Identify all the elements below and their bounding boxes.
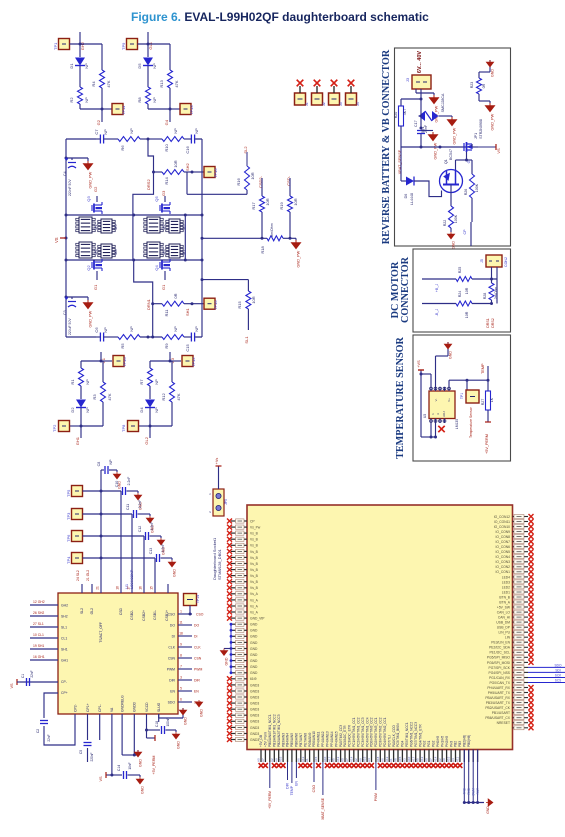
svg-text:D2: D2: [70, 407, 75, 413]
svg-text:CSN: CSN: [168, 656, 176, 660]
wire: [81, 360, 101, 362]
wire Q1 collector to gate: [455, 160, 457, 170]
svg-text:PC4/H5V/TIM1_CC4: PC4/H5V/TIM1_CC4: [365, 717, 369, 747]
svg-text:PG6/SPI_MOSI: PG6/SPI_MOSI: [487, 661, 510, 665]
pin SL1 left wire: [30, 626, 58, 628]
wire inter-row vertical A: [132, 215, 134, 260]
svg-text:PB2/AIN2/TIM1_NCC3: PB2/AIN2/TIM1_NCC3: [277, 714, 281, 747]
svg-text:Vs_B: Vs_B: [250, 538, 259, 542]
node +VS temp: [420, 370, 422, 437]
svg-text:61t9: 61t9: [250, 677, 257, 681]
svg-text:PG6/TIM1_NCC2: PG6/TIM1_NCC2: [410, 722, 414, 747]
svg-text:A15: A15: [398, 756, 402, 762]
svg-text:10R: 10R: [465, 311, 469, 318]
svg-text:GND3: GND3: [250, 738, 259, 742]
testpoint TP5: [72, 486, 83, 497]
svg-text:NP: NP: [152, 63, 157, 69]
wire CSB2+ vertical: [131, 514, 133, 593]
testpoint TP16: [192, 171, 204, 173]
svg-text:R11: R11: [164, 309, 169, 317]
svg-text:CSB2+: CSB2+: [142, 610, 146, 621]
svg-text:PH4/UART_RX: PH4/UART_RX: [487, 686, 510, 690]
capacitor C6 NP: [100, 333, 103, 342]
pin EN right stub: [178, 690, 192, 692]
svg-text:PG2: PG2: [432, 740, 436, 747]
node GL2: [149, 426, 151, 438]
svg-text:C5: C5: [79, 750, 83, 754]
svg-text:GND: GND: [250, 653, 258, 657]
svg-text:SH2: SH2: [185, 162, 190, 171]
svg-text:RST: RST: [476, 788, 480, 794]
svg-text:R19: R19: [279, 202, 284, 210]
svg-text:BTN_B: BTN_B: [499, 595, 510, 599]
jumper J1: [295, 93, 306, 105]
svg-text:+5V_PERM: +5V_PERM: [152, 756, 156, 775]
resistor R14 10R: [154, 171, 163, 173]
wire U3 left pin to +VS: [430, 374, 432, 387]
svg-text:26 SH2: 26 SH2: [33, 611, 44, 615]
svg-text:R3: R3: [92, 394, 97, 400]
svg-text:IO_CON6: IO_CON6: [496, 545, 511, 549]
svg-text:TP11: TP11: [121, 105, 126, 115]
svg-text:USB_DP: USB_DP: [497, 626, 511, 630]
svg-text:A13: A13: [301, 756, 305, 762]
jumper J3: [329, 93, 340, 105]
svg-text:IO_CON9: IO_CON9: [496, 530, 511, 534]
svg-text:16 GH1: 16 GH1: [33, 655, 45, 659]
wire bottom rail: [66, 336, 96, 338]
svg-text:GND3: GND3: [250, 708, 259, 712]
pin CSN right stub: [178, 657, 192, 659]
svg-text:GND: GND: [250, 635, 258, 639]
svg-text:PF4/AIN15: PF4/AIN15: [334, 731, 338, 747]
svg-text:R15: R15: [237, 301, 242, 309]
svg-text:PG4/TIM1_ETR: PG4/TIM1_ETR: [418, 724, 422, 747]
capacitor C8 NP row: [101, 469, 104, 471]
svg-text:IO_CON11: IO_CON11: [494, 520, 510, 524]
svg-text:SDI: SDI: [555, 668, 560, 672]
ground GND swim: [486, 799, 493, 806]
wire top rail: [66, 138, 96, 140]
svg-text:TP2: TP2: [52, 424, 57, 432]
svg-text:10nF: 10nF: [128, 762, 132, 769]
svg-text:A0: A0: [341, 758, 345, 762]
svg-text:GND3: GND3: [250, 732, 259, 736]
svg-text:DRS1: DRS1: [486, 318, 490, 328]
svg-text:V-: V-: [434, 399, 438, 402]
svg-text:G4: G4: [164, 119, 169, 125]
testpoint TP3: [72, 509, 83, 520]
svg-text:M7: M7: [181, 249, 186, 255]
wire: [81, 425, 103, 427]
pin DO right stub: [178, 624, 192, 626]
svg-text:PA3/ADC_ETR: PA3/ADC_ETR: [343, 725, 347, 747]
ic U3 LM135: [429, 391, 455, 419]
node GH1: [80, 426, 82, 438]
transistor Q4: [160, 259, 170, 271]
svg-text:CSB1-: CSB1-: [153, 610, 157, 620]
testpoint TP1: [59, 39, 70, 50]
row TP5 C10: [83, 490, 122, 492]
svg-text:A7: A7: [261, 758, 265, 762]
ground GND_PW J3: [430, 95, 439, 104]
capacitor C14 10nF: [112, 774, 122, 776]
svg-text:15: 15: [150, 586, 154, 590]
svg-text:DO: DO: [170, 623, 175, 627]
ic U3 pins top: [430, 387, 432, 391]
svg-text:A17: A17: [411, 756, 415, 762]
svg-text:Vs_B: Vs_B: [250, 556, 259, 560]
section box temperature sensor: [413, 335, 511, 461]
pin CL1 left wire: [30, 637, 58, 639]
jumper J2: [312, 93, 323, 105]
node VS at C1: [16, 679, 18, 685]
pin SH1 left wire: [30, 648, 58, 650]
svg-text:GND: GND: [184, 717, 188, 725]
pin GH2 left wire: [30, 604, 58, 606]
svg-text:CAN_LO: CAN_LO: [497, 611, 511, 615]
svg-text:GNDRELG: GNDRELG: [120, 695, 124, 712]
svg-text:A6: A6: [296, 758, 300, 762]
ground GND C14: [139, 775, 141, 777]
wire: [70, 43, 103, 45]
svg-text:Vs_Pw: Vs_Pw: [250, 526, 261, 530]
svg-text:SH2: SH2: [61, 614, 68, 618]
svg-text:A10: A10: [407, 756, 411, 762]
wire TP14 to CSO: [189, 606, 191, 615]
svg-text:PG5/SPI_MISO: PG5/SPI_MISO: [487, 656, 511, 660]
svg-text:Q2: Q2: [86, 265, 91, 271]
mosfet package M2: [144, 217, 163, 233]
svg-text:NP: NP: [84, 97, 89, 103]
svg-text:PE6/AIN10: PE6/AIN10: [312, 731, 316, 747]
svg-text:TEMP: TEMP: [481, 363, 485, 374]
svg-text:A5: A5: [332, 758, 336, 762]
svg-text:GH1: GH1: [75, 436, 80, 445]
svg-text:R22: R22: [443, 220, 447, 227]
svg-text:R7: R7: [139, 379, 144, 385]
svg-text:Vs_A: Vs_A: [250, 592, 259, 596]
resistor R20 4K7: [401, 98, 421, 100]
svg-text:DIR: DIR: [286, 782, 290, 788]
pins daughterboard right side: [513, 516, 529, 518]
svg-text:J3: J3: [339, 102, 343, 106]
ground GND R22: [450, 230, 452, 232]
pins daughterboard left side: [231, 520, 247, 522]
svg-text:STM8/128_DB01: STM8/128_DB01: [217, 549, 222, 580]
svg-text:PB4/USART_RX: PB4/USART_RX: [485, 696, 510, 700]
testpoint TP9: [127, 39, 138, 50]
svg-text:Vs_B: Vs_B: [250, 574, 259, 578]
svg-text:GND: GND: [491, 69, 495, 77]
svg-text:SWM: SWM: [472, 788, 476, 796]
svg-text:PH1/H5: PH1/H5: [440, 736, 444, 747]
resistor R26 100K: [467, 159, 473, 161]
svg-text:C10: C10: [115, 481, 119, 488]
svg-text:CP: CP: [250, 519, 255, 523]
svg-text:PG7/SPI_SCK: PG7/SPI_SCK: [489, 666, 511, 670]
svg-text:NP: NP: [103, 327, 108, 333]
svg-text:TP15: TP15: [213, 300, 218, 310]
node +5V_PERM at VCCD: [146, 730, 148, 738]
svg-text:R5: R5: [120, 343, 125, 349]
resistor R4 47K: [101, 44, 103, 70]
svg-text:9: 9: [180, 643, 182, 647]
diode D6 LL4448: [400, 150, 402, 181]
svg-text:Vs_B: Vs_B: [250, 580, 259, 584]
svg-text:PC2/H5V/TIM1_CC2: PC2/H5V/TIM1_CC2: [356, 717, 360, 747]
ic daughterboard body: [247, 505, 513, 750]
section box reverse battery: [395, 48, 511, 246]
svg-text:47K: 47K: [107, 393, 112, 400]
resistor R6 NP: [118, 137, 140, 142]
svg-text:A3: A3: [403, 758, 407, 762]
pin GNDRELG bottom stub: [121, 714, 123, 722]
svg-text:TP6: TP6: [66, 534, 71, 542]
svg-text:U3: U3: [423, 414, 427, 418]
svg-text:PC5/TIM1_BKIN: PC5/TIM1_BKIN: [396, 723, 400, 747]
svg-text:A9: A9: [442, 758, 446, 762]
svg-text:R6: R6: [120, 145, 125, 151]
svg-text:NP: NP: [103, 129, 108, 135]
diode D4 NP: [149, 386, 151, 399]
resistor R24 10R: [456, 301, 472, 306]
svg-text:21: 21: [96, 586, 100, 590]
svg-text:PG4: PG4: [401, 740, 405, 747]
resistor R8 NP: [146, 87, 151, 104]
svg-text:TP1: TP1: [53, 42, 58, 50]
ground GND_PW shunt: [295, 238, 297, 240]
svg-text:NP: NP: [129, 128, 134, 134]
svg-text:GND_PW: GND_PW: [491, 113, 495, 130]
svg-text:GND3: GND3: [250, 726, 259, 730]
row TP4 C13: [83, 557, 156, 559]
svg-text:100nF: 100nF: [166, 717, 170, 726]
svg-text:DO: DO: [194, 623, 199, 627]
svg-text:10R: 10R: [250, 172, 255, 179]
svg-text:D5: D5: [137, 63, 142, 69]
diode BR1 SMCJ28CA: [420, 98, 423, 101]
ground GND below EN: [195, 700, 202, 707]
svg-text:R12: R12: [161, 393, 166, 401]
transistor Q5: [160, 202, 170, 214]
pin CP+ jog to C2: [44, 693, 58, 718]
svg-text:CP+: CP+: [61, 691, 68, 695]
svg-text:CP2-: CP2-: [73, 704, 77, 712]
svg-text:PE2/I2C_SDA: PE2/I2C_SDA: [489, 646, 511, 650]
pins daughterboard bottom side: [260, 750, 262, 763]
pin GNDD bottom stub: [133, 714, 135, 722]
svg-text:M6: M6: [113, 224, 118, 230]
wire R16 bottom row: [186, 173, 188, 195]
wire CON2 pin2: [496, 267, 498, 271]
svg-text:NP: NP: [194, 128, 199, 134]
svg-text:M3: M3: [161, 249, 166, 255]
svg-text:PB3/AIN3: PB3/AIN3: [281, 733, 285, 747]
svg-text:TP14: TP14: [196, 595, 200, 603]
svg-text:IO_CON7: IO_CON7: [496, 540, 511, 544]
svg-text:21 GL2: 21 GL2: [86, 570, 90, 581]
svg-text:V+: V+: [447, 398, 451, 402]
svg-text:CP-: CP-: [61, 680, 67, 684]
svg-text:GND3: GND3: [250, 720, 259, 724]
svg-text:G1: G1: [93, 284, 98, 290]
svg-text:PB1/AIN1/TIM1_NCC2: PB1/AIN1/TIM1_NCC2: [273, 714, 277, 747]
svg-text:+5V_PERM: +5V_PERM: [485, 434, 489, 454]
svg-text:GND: GND: [200, 709, 204, 717]
svg-text:220nF: 220nF: [90, 752, 94, 761]
svg-text:DIR: DIR: [169, 678, 175, 682]
svg-text:2.2nF: 2.2nF: [138, 500, 142, 509]
svg-text:PG6/AIN9: PG6/AIN9: [308, 732, 312, 747]
svg-text:PF4/AIN14: PF4/AIN14: [330, 731, 334, 747]
resistor R10 NP: [162, 137, 184, 142]
svg-text:VS: VS: [496, 148, 501, 154]
pin GL2 stub: [91, 584, 93, 593]
svg-text:0R: 0R: [173, 293, 178, 298]
wire shunt rail: [202, 237, 267, 239]
svg-text:A16: A16: [279, 756, 283, 762]
capacitor C16 NP: [191, 135, 194, 144]
svg-text:GND_PW: GND_PW: [434, 142, 438, 159]
svg-text:TP16: TP16: [213, 168, 218, 178]
svg-text:A7: A7: [345, 758, 349, 762]
mosfet package M3: [144, 242, 163, 258]
svg-text:TP10: TP10: [122, 357, 127, 367]
svg-text:47K: 47K: [106, 80, 111, 87]
svg-text:10R: 10R: [265, 198, 270, 205]
svg-text:10 CL1: 10 CL1: [33, 633, 44, 637]
ground GND left bus: [224, 648, 231, 650]
svg-text:Vs_B: Vs_B: [250, 532, 259, 536]
svg-text:A14: A14: [433, 756, 437, 762]
node SL1: [247, 309, 249, 330]
svg-text:R13: R13: [159, 80, 164, 88]
svg-text:C15: C15: [185, 344, 190, 352]
svg-text:NP: NP: [129, 326, 134, 332]
svg-text:NP: NP: [173, 326, 178, 332]
capacitor C15 NP: [191, 333, 194, 342]
svg-text:A14: A14: [349, 756, 353, 762]
section box DC motor: [413, 249, 511, 332]
svg-text:XBAT_SENSE: XBAT_SENSE: [321, 797, 325, 820]
svg-text:IO_CON1: IO_CON1: [496, 570, 511, 574]
svg-text:CL1: CL1: [61, 636, 67, 640]
wire Q1 base: [420, 180, 422, 182]
svg-text:2.2nF: 2.2nF: [161, 544, 165, 553]
svg-text:GH1: GH1: [61, 658, 68, 662]
wire row1 rail: [66, 214, 202, 216]
transistor Q3: [92, 202, 102, 214]
svg-text:SH1: SH1: [185, 307, 190, 316]
svg-text:EN: EN: [295, 780, 299, 785]
svg-text:GND_PW: GND_PW: [89, 310, 93, 327]
svg-text:18: 18: [179, 632, 183, 636]
svg-text:PWM: PWM: [167, 667, 175, 671]
svg-text:GND3: GND3: [250, 689, 259, 693]
svg-text:NP: NP: [154, 407, 159, 413]
svg-text:DRS2: DRS2: [146, 179, 151, 190]
pin CP2- bottom stub: [74, 714, 76, 722]
svg-text:GND: GND: [177, 741, 181, 749]
svg-text:GND: GND: [250, 623, 258, 627]
wire: [150, 425, 172, 427]
wire left rail: [65, 139, 67, 337]
svg-text:4K7: 4K7: [403, 109, 407, 115]
pin CSB1+ stub: [167, 584, 169, 593]
resistor R22 100K: [449, 206, 454, 228]
svg-text:A0: A0: [425, 758, 429, 762]
svg-text:GND_PW: GND_PW: [89, 171, 93, 188]
wire CP1- stub down: [99, 722, 101, 740]
testpoint TP8: [139, 425, 150, 427]
svg-text:GND_VtP: GND_VtP: [250, 617, 265, 621]
resistor R5 NP: [118, 335, 140, 340]
ground GND C18: [175, 730, 177, 732]
svg-text:G1: G1: [161, 284, 166, 290]
wire GND bus left: [230, 624, 232, 673]
svg-text:C6: C6: [94, 327, 99, 333]
svg-text:PD2/H5V/TIM3_CC1: PD2/H5V/TIM3_CC1: [374, 717, 378, 747]
svg-text:R23: R23: [470, 82, 474, 89]
svg-text:PD4/H5V/TIM2_CC1: PD4/H5V/TIM2_CC1: [383, 717, 387, 747]
diode D2 NP: [80, 386, 82, 399]
svg-text:SCK: SCK: [555, 674, 562, 678]
svg-text:+B_J: +B_J: [435, 284, 439, 292]
svg-text:M2: M2: [161, 224, 166, 230]
node G1 label: [96, 271, 98, 280]
svg-text:C14: C14: [117, 765, 121, 771]
svg-text:CAN_HI: CAN_HI: [498, 616, 510, 620]
connector CON2: [486, 255, 502, 267]
svg-text:PF4/AIN13: PF4/AIN13: [326, 731, 330, 747]
svg-text:NP: NP: [85, 407, 90, 413]
svg-text:EN: EN: [170, 689, 175, 693]
svg-text:R9: R9: [164, 343, 169, 349]
svg-text:NP: NP: [194, 326, 199, 332]
svg-text:SCS: SCS: [555, 679, 562, 683]
svg-text:PE7/AIN8: PE7/AIN8: [303, 733, 307, 747]
svg-text:Vs_B: Vs_B: [250, 544, 259, 548]
svg-text:CSO: CSO: [168, 612, 176, 616]
svg-text:Vs_A: Vs_A: [250, 598, 259, 602]
resistor R2 NP: [78, 87, 83, 104]
svg-text:D1: D1: [69, 63, 74, 69]
pin SLUG bottom stub: [158, 714, 160, 722]
svg-text:220nF 50V: 220nF 50V: [68, 179, 72, 196]
svg-text:PG0/CAN_TX: PG0/CAN_TX: [489, 681, 510, 685]
svg-text:A7: A7: [429, 758, 433, 762]
svg-text:TP5: TP5: [66, 489, 71, 497]
svg-text:1: 1: [180, 610, 182, 614]
svg-text:DIR: DIR: [194, 678, 200, 682]
svg-text:PG1: PG1: [427, 740, 431, 747]
svg-text:PH2/H5: PH2/H5: [445, 736, 449, 747]
svg-text:2.2nF: 2.2nF: [127, 477, 131, 486]
svg-text:GND: GND: [225, 657, 229, 665]
mosfet package M5: [166, 219, 183, 233]
svg-text:R2: R2: [69, 97, 74, 103]
svg-text:R10: R10: [164, 144, 169, 152]
svg-text:CP: CP: [463, 229, 467, 235]
svg-text:Vs_B: Vs_B: [250, 550, 259, 554]
svg-text:VS: VS: [99, 776, 103, 782]
svg-text:Q3: Q3: [86, 196, 91, 202]
testpoint TP6: [72, 531, 83, 542]
svg-text:A2: A2: [354, 758, 358, 762]
svg-text:A1: A1: [305, 758, 309, 762]
svg-text:Vs_B: Vs_B: [250, 568, 259, 572]
